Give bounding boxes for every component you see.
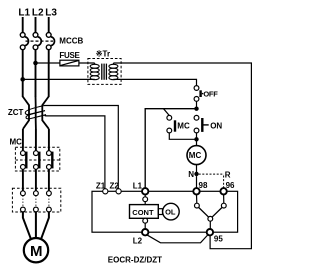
breaker MCCB pole 3 xyxy=(46,33,54,50)
motor M xyxy=(24,238,48,262)
sensor pole 1 xyxy=(21,191,26,212)
transformer Tr primary coil xyxy=(90,63,99,80)
wire L1 top xyxy=(22,17,24,33)
wire L1 to transformer xyxy=(23,78,95,80)
node N xyxy=(194,172,198,176)
EOCR block box xyxy=(92,191,238,232)
contact circle above CONT xyxy=(143,197,148,202)
svg-text:CONT: CONT xyxy=(132,208,154,217)
wire terminal L1 to CONT xyxy=(144,195,146,197)
transformer Tr secondary coil xyxy=(109,63,118,80)
wire ON bottom to junction xyxy=(196,133,198,139)
wire junction to left and down to terminal L1 xyxy=(145,109,196,188)
wire L1 to contactor xyxy=(22,129,24,151)
svg-text:96: 96 xyxy=(226,181,235,190)
pushbutton OFF xyxy=(194,86,203,102)
wire L3 top xyxy=(48,17,50,33)
contactor MC pole 2 xyxy=(34,151,40,170)
svg-text:MCCB: MCCB xyxy=(59,37,83,46)
junction on L2 to fuse xyxy=(33,61,38,66)
sensor block box xyxy=(12,188,60,212)
terminal 98 xyxy=(193,188,199,194)
terminal L2 xyxy=(142,229,148,235)
wire ZCT secondary top to terminal Z2 xyxy=(44,106,118,189)
junction above MC coil xyxy=(194,137,198,141)
svg-text:OFF: OFF xyxy=(203,89,218,98)
wire jumper L2 to 95 xyxy=(147,235,208,243)
svg-text:EOCR-DZ/DZT: EOCR-DZ/DZT xyxy=(108,256,162,265)
wire dashed R to terminal 96 xyxy=(223,176,225,189)
wire L2 top xyxy=(35,17,37,33)
wire CONT to circle xyxy=(144,217,146,219)
wire dashed N to R xyxy=(199,173,224,175)
wire circle to terminal L2 xyxy=(144,223,146,229)
svg-text:MC: MC xyxy=(189,151,202,160)
wire junction to MC coil xyxy=(196,139,198,145)
svg-text:L2: L2 xyxy=(133,237,143,246)
breaker MCCB pole 1 xyxy=(20,33,28,50)
wire L2 mid xyxy=(35,50,37,97)
terminal 95 xyxy=(207,229,213,235)
wire L2 to fuse xyxy=(36,62,60,64)
svg-text:MC: MC xyxy=(10,138,23,147)
fuse FUSE xyxy=(60,60,79,66)
svg-text:L3: L3 xyxy=(45,7,57,18)
contactor MC pole 1 xyxy=(21,151,27,170)
transformer Tr core xyxy=(102,64,107,80)
wire contactor to sensor pole 3 xyxy=(48,169,50,191)
transformer Tr box xyxy=(88,59,121,85)
svg-text:R: R xyxy=(225,171,231,180)
svg-text:M: M xyxy=(30,243,43,260)
relay contact under 98 xyxy=(195,195,200,209)
block CONT xyxy=(130,205,159,219)
current transformer ZCT winding xyxy=(25,106,46,119)
terminal 96 xyxy=(220,188,226,194)
relay contact under 96 xyxy=(221,195,226,209)
svg-text:Z1: Z1 xyxy=(96,181,106,190)
contact MC aux diagonal link xyxy=(164,109,170,116)
contactor MC linkage xyxy=(15,159,59,161)
indicator OL xyxy=(163,203,180,220)
relay common contact arm xyxy=(199,207,223,229)
svg-text:L1: L1 xyxy=(133,181,143,190)
wire L3 to contactor xyxy=(48,129,50,151)
svg-text:N: N xyxy=(188,170,194,179)
pushbutton ON xyxy=(194,115,209,133)
wire L2 to contactor xyxy=(35,129,37,151)
terminal Z1 xyxy=(103,189,108,194)
svg-text:95: 95 xyxy=(214,235,223,244)
wire funnel into ZCT xyxy=(23,97,49,130)
wire funnel to motor xyxy=(23,212,49,239)
svg-text:L2: L2 xyxy=(32,7,44,18)
wire transformer secondary bottom to OFF button xyxy=(113,79,196,85)
wire MC coil to node N xyxy=(196,165,198,174)
svg-text:ON: ON xyxy=(210,121,222,130)
sensor pole 2 xyxy=(34,191,39,212)
junction on L1 to transformer xyxy=(20,77,25,82)
sensor pole 3 xyxy=(47,191,52,212)
terminal L1 xyxy=(142,188,148,194)
svg-text:MC: MC xyxy=(177,122,190,131)
breaker MCCB pole 2 xyxy=(33,33,41,50)
wire contactor to sensor pole 2 xyxy=(35,169,37,191)
wire ZCT secondary bottom to terminal Z1 xyxy=(46,116,105,189)
svg-text:OL: OL xyxy=(165,207,176,216)
link CONT to OL xyxy=(158,209,162,215)
contactor MC pole 3 xyxy=(47,151,53,170)
wire fuse to transformer xyxy=(79,62,95,64)
svg-text:※Tr: ※Tr xyxy=(96,50,110,59)
breaker MCCB linkage xyxy=(26,40,54,42)
wire to CONT box xyxy=(144,202,146,205)
wire MC aux bottom to junction xyxy=(169,133,196,139)
wire transformer secondary top to right rail down to bottom and terminal 95 xyxy=(113,63,251,249)
svg-text:98: 98 xyxy=(199,181,208,190)
svg-text:Z2: Z2 xyxy=(110,181,120,190)
contactor MC box xyxy=(15,147,59,171)
wire OFF to junction xyxy=(196,101,198,108)
svg-text:ZCT: ZCT xyxy=(8,108,24,117)
wire L1 mid xyxy=(22,50,24,97)
contact circle below CONT xyxy=(143,218,148,223)
svg-text:FUSE: FUSE xyxy=(59,51,80,60)
coil MC xyxy=(187,146,206,165)
svg-text:L1: L1 xyxy=(18,7,30,18)
wire contactor to sensor pole 1 xyxy=(22,169,24,191)
wire L3 mid xyxy=(48,50,50,97)
wire N to terminal 98 xyxy=(196,176,198,188)
junction below OFF xyxy=(194,107,198,111)
contact MC aux xyxy=(167,115,175,133)
terminal Z2 xyxy=(116,189,121,194)
